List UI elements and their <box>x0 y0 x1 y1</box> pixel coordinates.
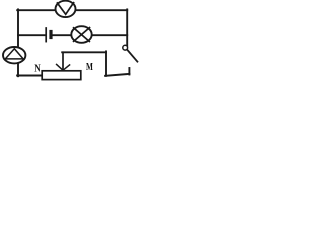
wire right down vertical <box>105 51 107 75</box>
svg-text:M: M <box>86 62 93 73</box>
wire bottom right rail <box>105 74 129 76</box>
ammeter A1 <box>3 47 25 63</box>
wire top rail <box>17 9 127 11</box>
battery cell long plate <box>45 28 47 42</box>
rheostat slider arrow <box>57 52 70 70</box>
wire bottom left rail <box>17 75 42 77</box>
lamp L1 <box>71 26 91 43</box>
wire middle rail <box>18 34 46 36</box>
svg-text:N: N <box>34 64 41 75</box>
wire right vertical <box>126 9 128 45</box>
switch blade <box>127 50 137 62</box>
wire slider horizontal <box>62 51 106 53</box>
battery cell short thick plate <box>49 30 52 39</box>
switch pivot <box>123 45 128 50</box>
rheostat R box <box>42 71 81 80</box>
voltmeter V1 <box>56 1 76 17</box>
wire left vertical <box>17 9 19 76</box>
wire middle rail right <box>53 34 128 36</box>
switch stub terminal <box>128 68 130 75</box>
